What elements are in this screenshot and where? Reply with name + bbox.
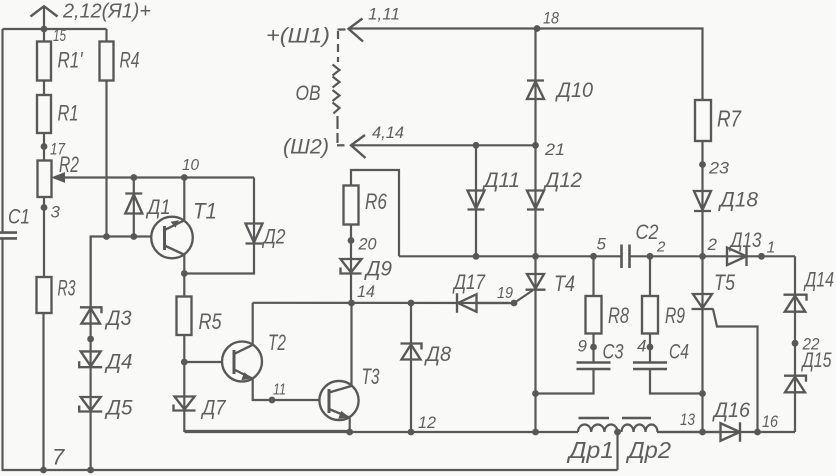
diode Д9 bbox=[341, 258, 393, 281]
svg-text:Д16: Д16 bbox=[712, 399, 750, 422]
diode Д14 bbox=[784, 256, 835, 432]
terminal +(Ш1) bbox=[266, 25, 346, 48]
svg-text:R1: R1 bbox=[58, 101, 79, 126]
transistor T3 bbox=[319, 364, 380, 420]
diode Д1 bbox=[125, 174, 170, 240]
svg-text:12: 12 bbox=[418, 413, 437, 432]
wire R3 to rail bbox=[42, 313, 44, 470]
svg-text:19: 19 bbox=[497, 285, 513, 302]
svg-text:4,14: 4,14 bbox=[372, 123, 404, 142]
diode Д13 bbox=[703, 229, 796, 266]
wire C4 to T5 bbox=[650, 369, 706, 397]
diode Д8 bbox=[401, 300, 452, 432]
diode Д11 bbox=[468, 145, 521, 259]
diode Д18 bbox=[694, 189, 758, 212]
svg-text:Д13: Д13 bbox=[729, 229, 762, 252]
arrow 1,11 bbox=[349, 5, 401, 42]
diode Д12 bbox=[527, 145, 582, 259]
resistor R8 bbox=[586, 256, 630, 333]
svg-text:Т2: Т2 bbox=[268, 330, 286, 355]
svg-text:Др2: Др2 bbox=[625, 437, 671, 463]
svg-text:Д3: Д3 bbox=[105, 307, 132, 330]
node 13 bbox=[680, 410, 706, 435]
svg-text:3: 3 bbox=[51, 203, 61, 222]
node 23 bbox=[699, 141, 729, 256]
resistor R7 bbox=[695, 100, 742, 141]
svg-text:2: 2 bbox=[707, 235, 718, 254]
capacitor C2 bbox=[622, 221, 667, 268]
svg-text:Д5: Д5 bbox=[105, 397, 133, 420]
node 15 bbox=[53, 26, 66, 45]
choke Др2 bbox=[622, 418, 672, 463]
svg-text:ОВ: ОВ bbox=[296, 82, 321, 105]
svg-text:18: 18 bbox=[543, 9, 559, 28]
svg-text:Т5: Т5 bbox=[714, 270, 736, 295]
node 16 bbox=[754, 412, 778, 435]
field winding ОВ bbox=[296, 31, 340, 143]
wire mid rail bbox=[399, 255, 703, 257]
node 14 bbox=[348, 282, 375, 306]
svg-text:Т4: Т4 bbox=[554, 271, 575, 296]
arrow 4,14 bbox=[351, 123, 404, 158]
svg-text:9: 9 bbox=[578, 337, 588, 356]
svg-text:Д18: Д18 bbox=[718, 189, 758, 212]
svg-text:С4: С4 bbox=[669, 341, 689, 364]
node 1 bbox=[758, 240, 775, 260]
svg-text:R8: R8 bbox=[608, 303, 630, 328]
svg-text:13: 13 bbox=[680, 410, 695, 429]
diode Д3 bbox=[80, 307, 132, 330]
terminal (Ш2) bbox=[283, 136, 345, 159]
diode Д4 bbox=[79, 351, 132, 374]
T5 gate bbox=[713, 309, 758, 432]
svg-text:2: 2 bbox=[656, 239, 666, 256]
resistor R1 bbox=[37, 95, 79, 133]
wire C3 to T4 bbox=[536, 369, 594, 394]
diode Д15 bbox=[784, 349, 832, 392]
svg-text:R4: R4 bbox=[120, 48, 140, 73]
wire T1 base bbox=[91, 237, 152, 308]
wire T3 collector bbox=[350, 303, 352, 386]
svg-text:2,12(Я1)+: 2,12(Я1)+ bbox=[62, 1, 151, 23]
wire R4 down (crosses wiper wire) bbox=[103, 81, 110, 240]
terminal 2,12(Я1)+ arrow bbox=[31, 1, 152, 33]
svg-text:Д4: Д4 bbox=[105, 351, 133, 374]
svg-text:21: 21 bbox=[544, 140, 565, 159]
node 18 bbox=[543, 9, 559, 28]
node 21 bbox=[532, 140, 565, 159]
svg-text:R7: R7 bbox=[717, 106, 742, 132]
diode Д5 bbox=[79, 397, 133, 420]
svg-text:23: 23 bbox=[708, 159, 730, 178]
wire left rail top bbox=[1, 29, 3, 232]
node T4-C3 bbox=[532, 390, 539, 397]
node 17 bbox=[41, 133, 66, 161]
wire T3 emitter bbox=[346, 418, 353, 436]
R2 wiper arrow bbox=[53, 173, 255, 182]
svg-text:С3: С3 bbox=[603, 341, 624, 364]
svg-text:R1': R1' bbox=[58, 48, 84, 73]
svg-text:Д10: Д10 bbox=[555, 79, 593, 102]
wire bottom mid bbox=[185, 431, 579, 433]
svg-text:Д7: Д7 bbox=[201, 397, 227, 420]
svg-text:Д1: Д1 bbox=[146, 196, 171, 219]
diode Д7 bbox=[174, 397, 227, 420]
svg-text:+(Ш1): +(Ш1) bbox=[266, 25, 330, 48]
choke Др1 bbox=[566, 418, 618, 463]
thyristor T5 bbox=[692, 256, 736, 432]
resistor R9 bbox=[642, 256, 685, 333]
node 5 bbox=[590, 235, 606, 260]
svg-text:R6: R6 bbox=[365, 189, 388, 214]
node 22 bbox=[792, 335, 820, 354]
svg-text:Д15: Д15 bbox=[801, 349, 832, 372]
svg-text:R3: R3 bbox=[58, 276, 76, 301]
transistor T2 bbox=[222, 330, 286, 382]
T4 gate bbox=[514, 291, 533, 304]
svg-text:16: 16 bbox=[762, 412, 778, 431]
svg-text:10: 10 bbox=[182, 157, 199, 174]
svg-text:С2: С2 bbox=[636, 221, 659, 244]
resistor R3 bbox=[37, 276, 76, 314]
svg-text:14: 14 bbox=[357, 282, 375, 301]
node T1 emitter junction bbox=[181, 270, 188, 277]
wire T2 base bbox=[184, 361, 222, 363]
wire top-left rail bbox=[3, 28, 107, 30]
svg-text:Д14: Д14 bbox=[803, 269, 834, 292]
node 4 bbox=[637, 334, 653, 363]
svg-text:7: 7 bbox=[52, 445, 65, 470]
node 7 bbox=[40, 445, 94, 474]
transistor T1 bbox=[151, 178, 217, 274]
svg-text:4: 4 bbox=[637, 337, 646, 356]
diode Д10 bbox=[527, 29, 593, 146]
wire node 14 rail bbox=[253, 302, 514, 304]
wire Д7 down bbox=[185, 430, 350, 432]
svg-text:Д8: Д8 bbox=[424, 343, 451, 366]
node choke junction bbox=[614, 429, 621, 470]
node 19 bbox=[477, 285, 518, 306]
svg-text:(Ш2): (Ш2) bbox=[283, 136, 329, 159]
svg-text:Т1: Т1 bbox=[193, 199, 217, 224]
svg-text:Д11: Д11 bbox=[482, 169, 520, 192]
svg-text:11: 11 bbox=[273, 382, 286, 399]
capacitor C3 bbox=[577, 341, 624, 370]
svg-text:R5: R5 bbox=[199, 309, 223, 334]
thyristor T4 bbox=[526, 256, 576, 432]
wire left rail bottom bbox=[2, 239, 618, 470]
wire 18 to R7 bbox=[537, 29, 703, 101]
svg-text:15: 15 bbox=[53, 26, 66, 45]
node 20 bbox=[348, 225, 377, 304]
svg-text:Д17: Д17 bbox=[452, 271, 486, 294]
node 9 bbox=[578, 334, 597, 363]
svg-text:С1: С1 bbox=[8, 206, 30, 229]
wire T2 collector bbox=[252, 303, 254, 345]
diode Д2 bbox=[184, 178, 285, 274]
svg-text:Др1: Др1 bbox=[566, 437, 614, 463]
wire 1,11 rail bbox=[349, 25, 541, 32]
node 3 bbox=[41, 197, 61, 277]
node 12 bbox=[408, 413, 437, 435]
wire T2 emitter / node 11 bbox=[253, 379, 320, 404]
svg-text:5: 5 bbox=[597, 235, 607, 254]
node 2 bbox=[647, 235, 718, 260]
resistor R1' bbox=[37, 29, 83, 81]
resistor R5 bbox=[177, 274, 223, 336]
node Д3-Д4 bbox=[87, 237, 94, 471]
svg-text:Т3: Т3 bbox=[362, 364, 381, 389]
svg-text:1,11: 1,11 bbox=[368, 5, 400, 24]
wire R5-Д7 bbox=[181, 335, 188, 432]
svg-text:Д2: Д2 bbox=[262, 226, 286, 249]
capacitor C4 bbox=[633, 341, 689, 370]
node 10 bbox=[181, 157, 199, 181]
svg-text:Д12: Д12 bbox=[543, 169, 582, 192]
wire Др2 to node 13 bbox=[658, 431, 721, 433]
svg-text:R9: R9 bbox=[665, 303, 685, 328]
svg-text:Д9: Д9 bbox=[364, 258, 392, 281]
wire R1'-R1 bbox=[43, 81, 45, 96]
wire 4,14 rail bbox=[351, 142, 536, 149]
resistor R4 bbox=[100, 29, 140, 81]
svg-text:20: 20 bbox=[358, 235, 377, 254]
node T4 bottom bbox=[532, 429, 539, 436]
resistor R2 bbox=[38, 152, 80, 197]
diode Д17 bbox=[452, 271, 486, 313]
capacitor C1 bbox=[0, 206, 30, 239]
resistor R6 bbox=[344, 170, 400, 256]
diode Д16 bbox=[657, 399, 795, 442]
svg-text:1: 1 bbox=[767, 240, 776, 257]
